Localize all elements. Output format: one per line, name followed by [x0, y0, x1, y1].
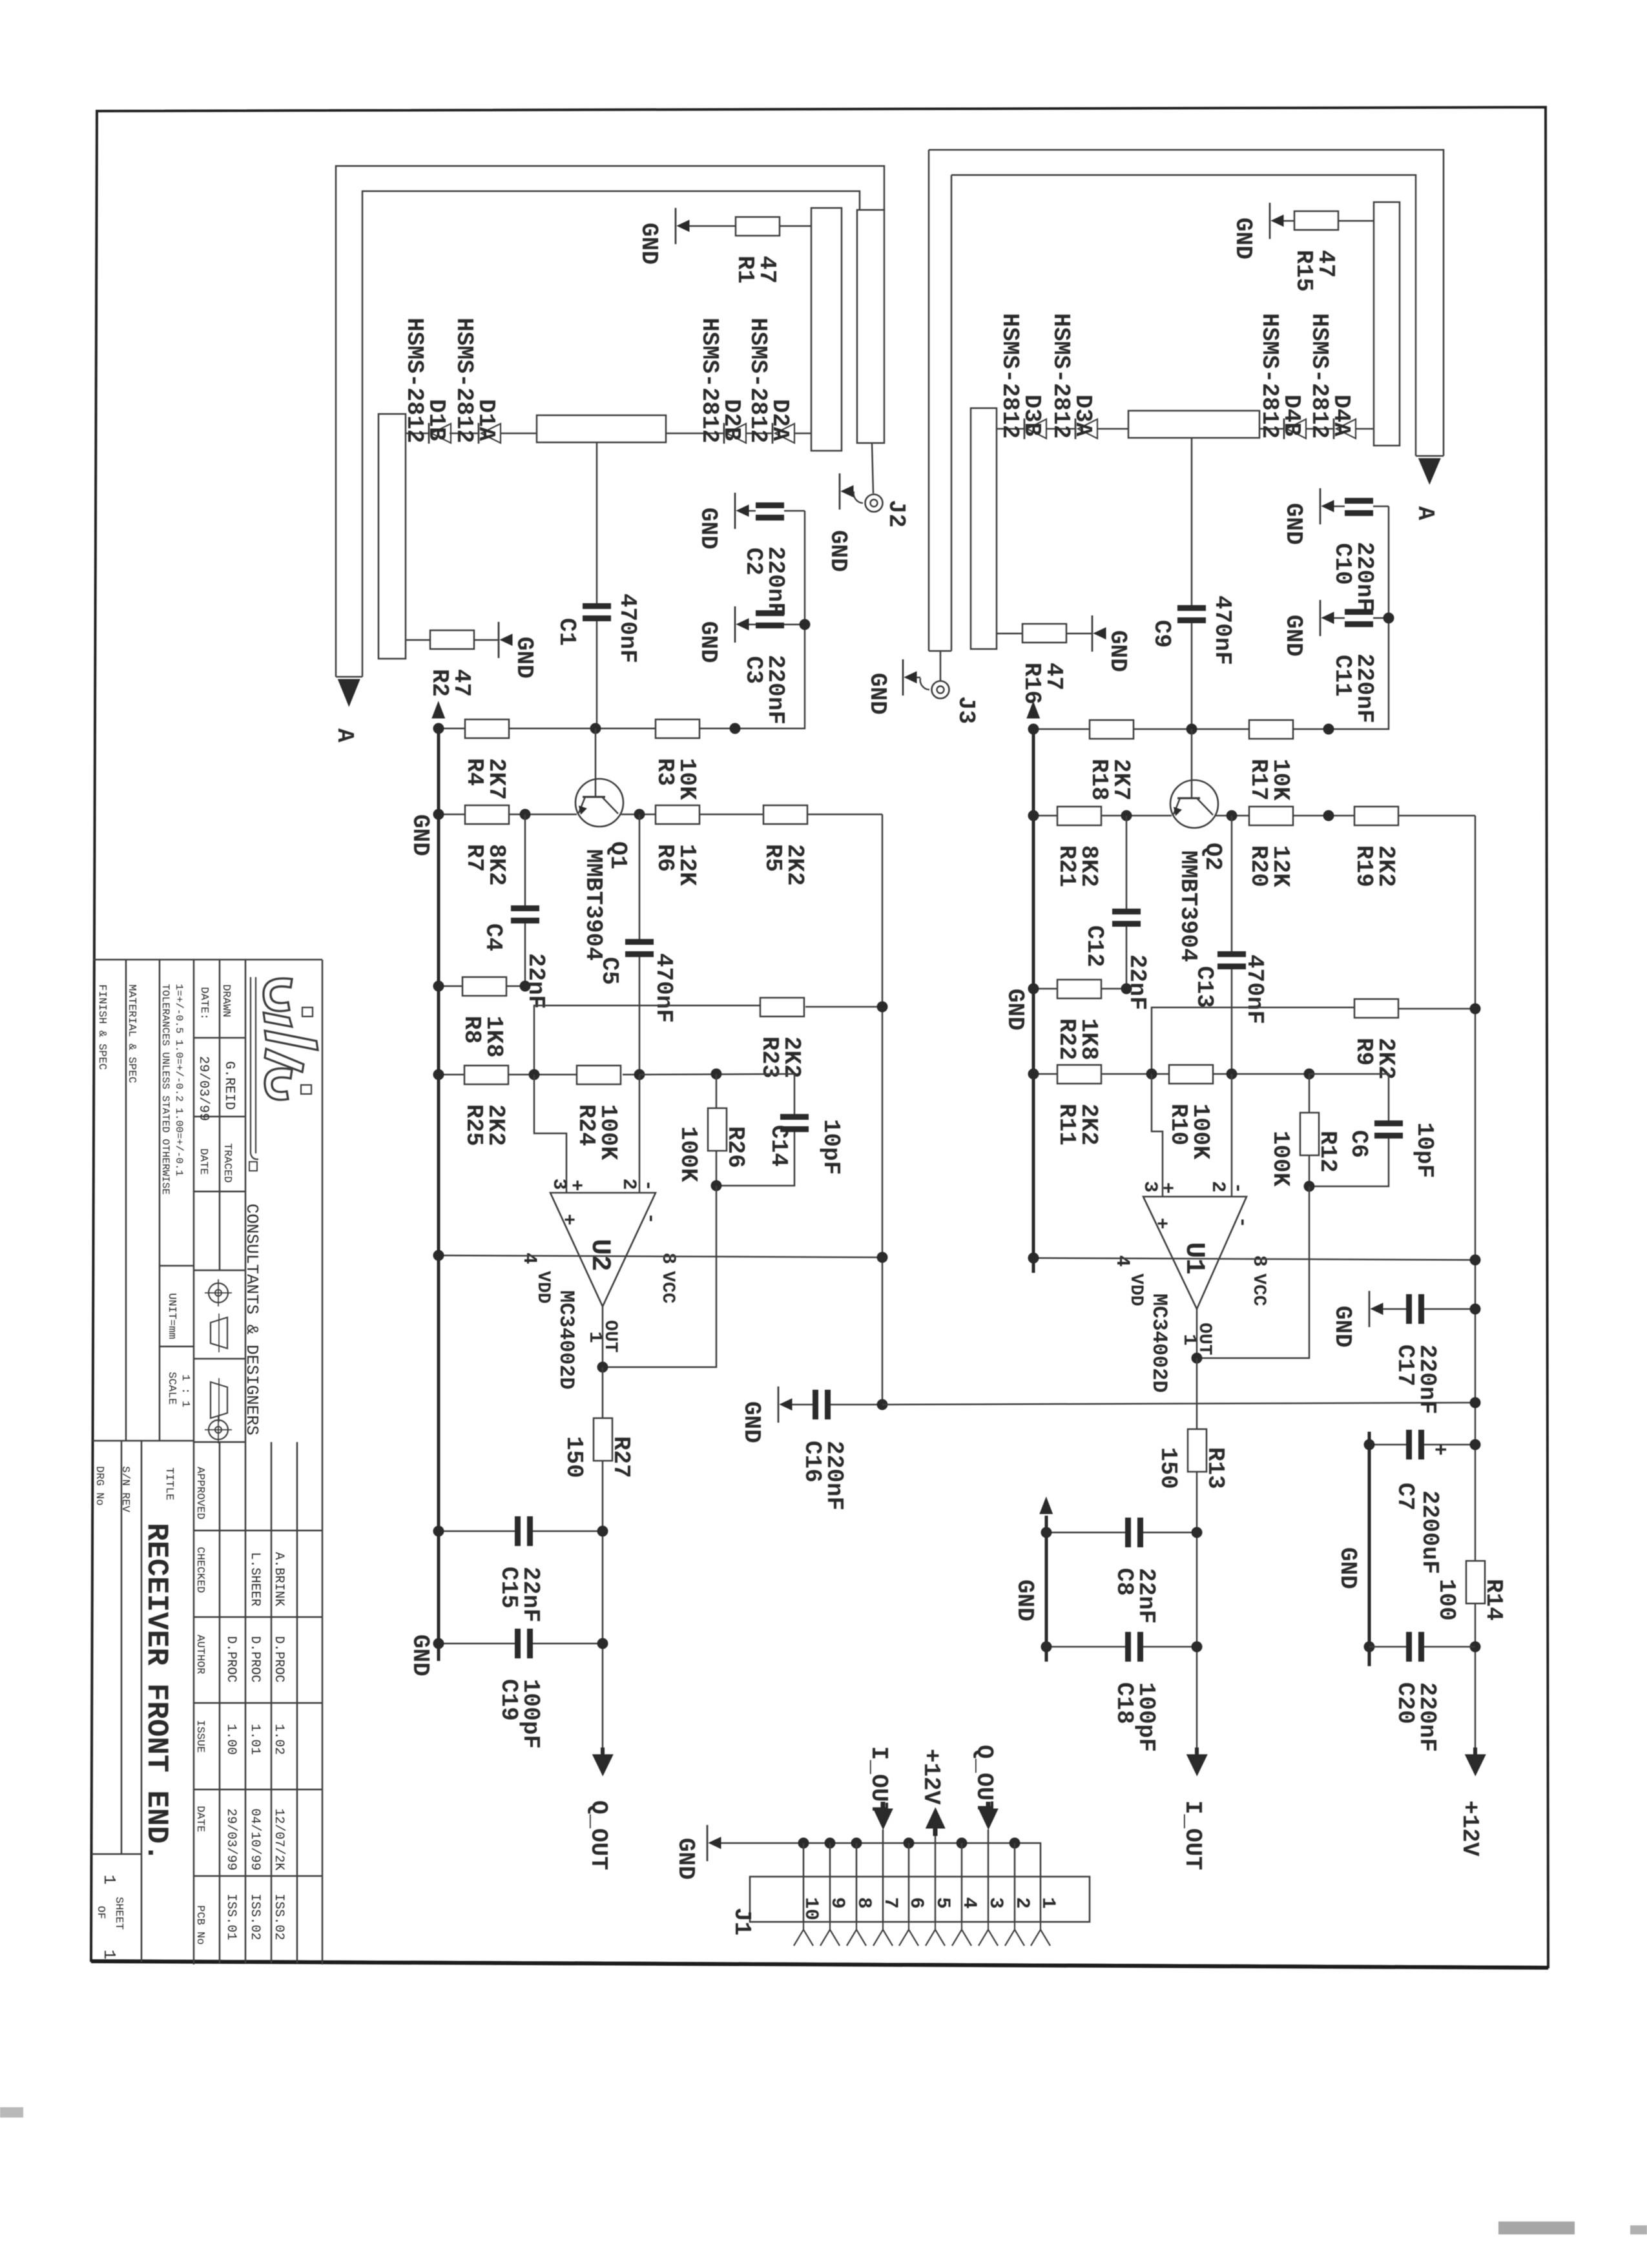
- resistor R23 2K2: [760, 998, 804, 1016]
- svg-text:1K8: 1K8: [1075, 1018, 1102, 1060]
- ground: [734, 493, 736, 529]
- svg-text:Q_OUT: Q_OUT: [971, 1745, 997, 1815]
- svg-text:ISS.02: ISS.02: [271, 1893, 286, 1940]
- svg-text:TRACED: TRACED: [221, 1143, 233, 1182]
- svg-text:R14: R14: [1480, 1579, 1507, 1621]
- resistor R12 100K: [1300, 1113, 1319, 1155]
- svg-text:29/03/99: 29/03/99: [223, 1808, 238, 1870]
- svg-text:DRAWN: DRAWN: [220, 984, 232, 1017]
- svg-text:220nF: 220nF: [762, 546, 789, 616]
- node Q_OUT: [592, 1755, 613, 1776]
- svg-text:2: 2: [617, 1179, 639, 1190]
- svg-text:GND: GND: [695, 621, 721, 663]
- svg-text:GND: GND: [738, 1401, 765, 1443]
- junction bus/R4: [433, 723, 444, 734]
- svg-text:47: 47: [1041, 663, 1067, 690]
- wire: divider row R11 R10: [1033, 1073, 1057, 1075]
- svg-text:8: 8: [657, 1253, 679, 1264]
- resistor R14 100: [1466, 1561, 1485, 1603]
- svg-text:47: 47: [1312, 250, 1339, 278]
- svg-text:ISS.01: ISS.01: [223, 1893, 238, 1940]
- junction J1 pin: [851, 1838, 862, 1849]
- wire: U2 -input: [639, 1075, 641, 1193]
- junction R11/R10: [1146, 1069, 1157, 1080]
- transistor Q1 MMBT3904: [575, 779, 623, 827]
- svg-text:D1A: D1A: [473, 399, 499, 441]
- svg-text:TOLERANCES UNLESS STATED OTHER: TOLERANCES UNLESS STATED OTHERWISE: [160, 984, 171, 1195]
- GND bus at C8/C18: [1045, 1516, 1048, 1662]
- GND bus (Q channel): [437, 725, 440, 1661]
- antenna element bar (I, to J3): [928, 150, 930, 651]
- svg-text:D4A: D4A: [1328, 395, 1354, 437]
- svg-text:SHEET: SHEET: [112, 1897, 125, 1930]
- svg-text:C1: C1: [554, 618, 580, 646]
- svg-text:100K: 100K: [595, 1104, 621, 1160]
- svg-text:+: +: [1155, 1182, 1177, 1194]
- wire: R9 feedback row: [1152, 1007, 1354, 1074]
- wire: base lead: [595, 728, 597, 780]
- wire: Q-channel outer loop, net A: [336, 166, 884, 677]
- svg-text:A: A: [1412, 506, 1438, 521]
- svg-text:GND: GND: [1280, 615, 1307, 657]
- svg-text:I_OUT: I_OUT: [1179, 1800, 1206, 1870]
- node +12V (bottom right): [1465, 1755, 1486, 1776]
- svg-text:8K2: 8K2: [1075, 845, 1102, 887]
- diode D1B HSMS-2812: [431, 424, 451, 443]
- GND bus at C7/C20: [1368, 1432, 1371, 1666]
- resistor R27 150: [602, 1367, 604, 1418]
- svg-text:22nF: 22nF: [1124, 954, 1150, 1010]
- connector J1: [750, 1877, 1090, 1922]
- svg-text:C4: C4: [480, 923, 506, 951]
- capacitor C8 22nF: [1125, 1518, 1131, 1547]
- svg-text:APPROVED: APPROVED: [194, 1467, 206, 1520]
- resistor R22 1K8: [1057, 980, 1101, 998]
- svg-text:A: A: [331, 728, 358, 743]
- capacitor C9 470nF: [1191, 438, 1193, 605]
- svg-text:12K: 12K: [1267, 845, 1294, 887]
- resistor R17 10K: [1249, 720, 1293, 739]
- junction C18/out: [1192, 1642, 1203, 1653]
- projection symbol 2: [211, 1382, 227, 1418]
- ground: [1092, 615, 1093, 652]
- junction bus/R8: [433, 981, 444, 992]
- svg-text:OF: OF: [94, 1906, 107, 1919]
- svg-text:1=+/-0.5 1.0=+/-0.2 1.00=+: 1=+/-0.5 1.0=+/-0.2 1.00=+/-0.1: [173, 984, 185, 1177]
- junction gnd/C8: [1041, 1527, 1052, 1538]
- svg-text:G.REID: G.REID: [222, 1061, 236, 1110]
- diode D2B HSMS-2812: [727, 424, 746, 443]
- svg-text:1.01: 1.01: [247, 1724, 262, 1755]
- capacitor C20 220nF: [1406, 1632, 1412, 1662]
- svg-text:D3B: D3B: [1019, 395, 1045, 437]
- svg-text:2K7: 2K7: [1108, 759, 1134, 801]
- svg-text:3: 3: [984, 1897, 1006, 1909]
- svg-text:1 : 1: 1 : 1: [179, 1374, 191, 1407]
- junction bus/R7: [433, 809, 444, 820]
- svg-text:12/07/2K: 12/07/2K: [271, 1808, 286, 1870]
- junction link/R20: [1323, 810, 1334, 821]
- wire: Q-channel inner loop, net A: [362, 191, 860, 677]
- svg-text:150: 150: [561, 1436, 587, 1478]
- svg-text:DATE: DATE: [197, 1148, 209, 1175]
- junction U2 out: [597, 1362, 608, 1373]
- connector J3: [932, 681, 949, 699]
- svg-text:C5: C5: [596, 957, 623, 985]
- junction R24/C5/pin2: [634, 1069, 645, 1080]
- junction bus/R25: [433, 1069, 444, 1080]
- svg-text:RECEIVER FRONT END.: RECEIVER FRONT END.: [140, 1523, 173, 1862]
- svg-text:29/03/99: 29/03/99: [196, 1056, 211, 1121]
- junction C12/R22: [1121, 984, 1132, 995]
- node I_OUT at J1 pin7: [873, 1809, 893, 1830]
- svg-text:-: -: [1227, 1182, 1248, 1194]
- svg-text:2K2: 2K2: [1075, 1104, 1102, 1146]
- svg-text:1: 1: [99, 1950, 119, 1960]
- svg-text:-: -: [637, 1180, 659, 1191]
- svg-text:GND: GND: [407, 814, 433, 856]
- wire: divider row R25 R24: [439, 1074, 464, 1076]
- diode D4B HSMS-2812: [1287, 419, 1306, 438]
- wire: base bias row R18 R17: [1033, 728, 1090, 730]
- wire: node to R26/C14: [639, 1074, 794, 1075]
- resistor R13 150: [1196, 1358, 1198, 1429]
- capacitor C18 100pF: [1125, 1632, 1131, 1662]
- svg-text:2K2: 2K2: [482, 1104, 509, 1146]
- wire: C10/C11 link down to R17 node: [1329, 506, 1389, 729]
- svg-text:C7: C7: [1392, 1483, 1418, 1510]
- svg-text:4: 4: [518, 1253, 540, 1264]
- svg-text:220nF: 220nF: [1414, 1682, 1440, 1752]
- svg-text:1K8: 1K8: [481, 1016, 507, 1058]
- resistor R7 8K2: [465, 805, 509, 824]
- ground: [675, 208, 677, 244]
- svg-text:D4B: D4B: [1278, 395, 1305, 437]
- junction bus/R11: [1028, 1069, 1039, 1080]
- junction gnd/C18: [1041, 1642, 1052, 1653]
- antenna element bar (I centre): [1128, 411, 1259, 438]
- ground: [1269, 203, 1271, 239]
- svg-text:C12: C12: [1081, 925, 1108, 967]
- svg-text:J2: J2: [883, 500, 909, 528]
- svg-text:C14: C14: [765, 1125, 792, 1167]
- svg-text:D2A: D2A: [767, 399, 793, 441]
- svg-text:GND: GND: [1280, 503, 1307, 545]
- svg-text:10: 10: [800, 1897, 822, 1921]
- svg-text:1.00: 1.00: [223, 1724, 238, 1755]
- resistor R4 2K7: [465, 719, 509, 738]
- GND bus (I channel): [1032, 725, 1035, 1273]
- junction C9/base: [1186, 724, 1197, 735]
- svg-text:2K2: 2K2: [782, 844, 808, 886]
- junction bus/R18: [1028, 724, 1039, 735]
- junction C8/out: [1192, 1527, 1203, 1538]
- svg-text:47: 47: [754, 256, 780, 283]
- junction bus/R22: [1028, 984, 1039, 995]
- junction C13 top: [1227, 810, 1238, 821]
- resistor R6 12K: [656, 805, 699, 824]
- capacitor C4 22nF: [524, 814, 526, 905]
- svg-text:10pF: 10pF: [1411, 1122, 1438, 1178]
- wire: bar B to J2: [872, 443, 873, 493]
- capacitor C2 220nF: [756, 502, 784, 508]
- title block grid: [94, 959, 322, 961]
- wire: base bias row R4 R3: [439, 728, 465, 730]
- junction gnd/C20: [1364, 1642, 1375, 1653]
- wire: R23 feedback row: [534, 1005, 760, 1075]
- diode D3A HSMS-2812: [1078, 419, 1097, 438]
- svg-text:10K: 10K: [1267, 759, 1294, 801]
- svg-text:GND: GND: [864, 673, 891, 715]
- J1 no-connect pins: [803, 1922, 804, 1930]
- svg-text:470nF: 470nF: [614, 593, 641, 663]
- svg-text:+12V: +12V: [1456, 1800, 1483, 1857]
- svg-text:100: 100: [1433, 1579, 1460, 1621]
- svg-text:1.02: 1.02: [271, 1724, 286, 1755]
- resistor R26 100K: [708, 1108, 727, 1151]
- diode D2A HSMS-2812: [775, 424, 794, 443]
- svg-text:A.BRINK: A.BRINK: [271, 1552, 286, 1606]
- resistor R11 2K2: [1057, 1065, 1101, 1084]
- junction C4 top: [520, 809, 531, 820]
- svg-text:GND: GND: [672, 1838, 699, 1880]
- ground: [1369, 1291, 1371, 1327]
- svg-text:D.PROC: D.PROC: [271, 1636, 286, 1682]
- diode D1A HSMS-2812: [481, 424, 501, 443]
- svg-text:+: +: [1150, 1218, 1172, 1230]
- wire: U2 +input jog: [534, 1075, 566, 1193]
- svg-text:MATERIAL & SPEC: MATERIAL & SPEC: [125, 984, 138, 1083]
- capacitor C3 220nF: [756, 610, 784, 616]
- svg-text:1: 1: [1037, 1897, 1059, 1909]
- svg-text:12K: 12K: [674, 844, 700, 886]
- svg-text:22nF: 22nF: [1133, 1568, 1159, 1624]
- resistor R2 47: [430, 630, 474, 649]
- junction J1 pin: [904, 1838, 915, 1849]
- junction J1 pin: [957, 1838, 968, 1849]
- junction bus/rail I: [1028, 1253, 1039, 1264]
- capacitor C10 220nF: [1345, 498, 1373, 504]
- antenna element bar A (Q right): [811, 208, 842, 451]
- junction rail/+12V: [1470, 1255, 1481, 1266]
- company logo: [250, 977, 251, 1153]
- svg-text:L.SHEER: L.SHEER: [247, 1552, 262, 1606]
- svg-text:R27: R27: [608, 1436, 634, 1478]
- svg-text:9: 9: [826, 1897, 848, 1909]
- junction R25/R24: [529, 1069, 540, 1080]
- wire: U1 output/feedback: [1196, 1309, 1198, 1358]
- svg-text:8: 8: [853, 1897, 875, 1909]
- svg-text:150: 150: [1155, 1447, 1181, 1489]
- wire: +V node vertical (Q): [882, 814, 884, 1405]
- svg-text:U2: U2: [585, 1239, 616, 1271]
- svg-text:C6: C6: [1345, 1130, 1372, 1158]
- resistor R18 2K7: [1090, 720, 1134, 739]
- antenna element bar (Q left): [378, 414, 406, 659]
- node +12V at J1 pin5: [926, 1808, 945, 1828]
- svg-text:D1B: D1B: [423, 399, 450, 441]
- junction +V link/rail: [1470, 1397, 1481, 1408]
- wire: +V link to right rail: [882, 1403, 1475, 1405]
- svg-text:-: -: [639, 1213, 661, 1224]
- junction C15/out: [597, 1526, 608, 1537]
- capacitor C16 220nF: [813, 1390, 818, 1419]
- junction R10/C13/pin2: [1227, 1069, 1238, 1080]
- svg-text:R12: R12: [1314, 1131, 1341, 1173]
- svg-text:+: +: [565, 1180, 586, 1191]
- wire: row R21 R20 R19: [1033, 815, 1057, 817]
- svg-text:1: 1: [99, 1875, 119, 1885]
- svg-text:2: 2: [1207, 1181, 1228, 1193]
- svg-text:8: 8: [1248, 1255, 1270, 1267]
- node I_OUT (amp output): [1186, 1755, 1207, 1776]
- junction J1 pin: [798, 1838, 809, 1849]
- svg-text:C13: C13: [1191, 966, 1217, 1008]
- svg-text:Q1: Q1: [605, 841, 631, 869]
- svg-text:I_OUT: I_OUT: [865, 1746, 892, 1816]
- svg-text:Q2: Q2: [1199, 843, 1226, 871]
- junction R12/C6 bottom: [1304, 1181, 1315, 1192]
- svg-text:100K: 100K: [1267, 1131, 1294, 1187]
- junction R26 top: [711, 1069, 722, 1080]
- svg-text:Q_OUT: Q_OUT: [585, 1800, 612, 1870]
- svg-text:47: 47: [448, 669, 475, 697]
- svg-text:2: 2: [1011, 1897, 1033, 1909]
- svg-text:2K2: 2K2: [1372, 845, 1399, 887]
- resistor R16 47: [1022, 624, 1066, 643]
- capacitor C19 100pF: [515, 1629, 521, 1658]
- svg-text:100pF: 100pF: [517, 1679, 544, 1749]
- wire: emitter/collector row R7 R6 R5: [439, 814, 465, 816]
- projection symbol 1: [209, 1283, 228, 1303]
- junction bus/C19: [433, 1638, 444, 1649]
- svg-text:4: 4: [958, 1897, 980, 1909]
- junction bus/R21: [1028, 810, 1039, 821]
- capacitor C7 2200uF: [1406, 1430, 1412, 1459]
- resistor R24 100K: [577, 1066, 621, 1084]
- wire: bar to J3: [940, 651, 942, 681]
- wire: VDD/VCC rail (I): [1033, 1258, 1475, 1260]
- junction R26/C14 bottom: [711, 1180, 722, 1191]
- svg-text:GND: GND: [636, 223, 662, 265]
- junction C19/out: [597, 1638, 608, 1649]
- svg-text:GND: GND: [511, 637, 537, 679]
- svg-text:VDD: VDD: [533, 1271, 553, 1303]
- antenna element bar (I left): [971, 408, 997, 649]
- svg-text:4: 4: [1111, 1255, 1133, 1267]
- junction R17/link: [1323, 724, 1334, 735]
- svg-text:AUTHOR: AUTHOR: [194, 1634, 206, 1674]
- junction C11/link: [1383, 613, 1394, 624]
- svg-text:220nF: 220nF: [1414, 1345, 1440, 1414]
- svg-text:GND: GND: [407, 1634, 433, 1676]
- capacitor C12 22nF: [1126, 816, 1128, 909]
- node A (I side arrow): [1418, 459, 1440, 484]
- junction bus/C15: [433, 1526, 444, 1537]
- svg-text:GND: GND: [1002, 989, 1028, 1031]
- node Q_OUT at J1 pin3: [979, 1809, 998, 1830]
- ground: [778, 1387, 780, 1423]
- antenna element bar C (I right): [1374, 202, 1400, 446]
- svg-text:VCC: VCC: [1248, 1273, 1269, 1306]
- ground at J2: [839, 473, 841, 510]
- svg-text:ISS.02: ISS.02: [247, 1893, 262, 1940]
- svg-text:R26: R26: [722, 1126, 749, 1168]
- svg-text:5: 5: [931, 1897, 953, 1909]
- svg-text:SCALE: SCALE: [165, 1372, 178, 1405]
- svg-text:GND: GND: [1334, 1547, 1361, 1589]
- capacitor C13 470nF: [1231, 816, 1233, 951]
- svg-text:J1: J1: [729, 1908, 755, 1935]
- svg-text:C9: C9: [1148, 620, 1175, 648]
- svg-text:VCC: VCC: [658, 1271, 678, 1304]
- capacitor C14 10pF: [794, 1074, 796, 1114]
- svg-text:D.PROC: D.PROC: [223, 1636, 238, 1682]
- junction C12 top: [1121, 810, 1132, 821]
- junction R9/+12V rail: [1470, 1004, 1481, 1015]
- op-amp U1 MC34002D: [1143, 1197, 1247, 1309]
- drawing border frame: [91, 107, 1548, 1967]
- capacitor C1 470nF: [596, 442, 598, 603]
- svg-text:6: 6: [905, 1897, 927, 1909]
- svg-text:10K: 10K: [674, 758, 700, 800]
- svg-text:PCB No: PCB No: [194, 1905, 206, 1944]
- svg-text:S/N REV: S/N REV: [119, 1466, 131, 1512]
- svg-text:CONSULTANTS & DESIGNERS: CONSULTANTS & DESIGNERS: [242, 1204, 262, 1436]
- ground: [1320, 488, 1321, 524]
- resistor R5 2K2: [763, 805, 807, 824]
- junction C16/+V node: [877, 1399, 888, 1410]
- junction U1 out: [1192, 1353, 1203, 1364]
- capacitor C5 470nF: [639, 814, 641, 939]
- junction C17/rail: [1470, 1304, 1481, 1315]
- ground: [1320, 600, 1321, 636]
- junction C3/link: [800, 619, 811, 630]
- svg-text:10pF: 10pF: [818, 1119, 844, 1175]
- svg-text:100K: 100K: [675, 1126, 701, 1182]
- svg-text:220nF: 220nF: [762, 655, 789, 725]
- wire: U1 +input jog: [1152, 1074, 1163, 1197]
- resistor R10 100K: [1169, 1065, 1213, 1084]
- svg-text:GND: GND: [1230, 218, 1256, 260]
- ground: [734, 606, 736, 643]
- op-amp U2 MC34002D: [550, 1193, 656, 1306]
- connector J2: [865, 495, 883, 512]
- transistor Q2 MMBT3904: [1191, 729, 1193, 781]
- wire: C2/C3 link down to R3 node: [735, 511, 805, 728]
- svg-text:R13: R13: [1202, 1447, 1228, 1489]
- wire: VDD/VCC rail (Q): [439, 1255, 882, 1257]
- junction R14/C20: [1470, 1642, 1481, 1653]
- svg-text:GND: GND: [1104, 630, 1131, 672]
- capacitor C6 10pF: [1309, 1074, 1389, 1120]
- svg-text:D3A: D3A: [1070, 395, 1096, 437]
- svg-text:DATE:: DATE:: [198, 987, 210, 1020]
- junction J1 pin: [825, 1838, 836, 1849]
- resistor R25 2K2: [464, 1066, 508, 1084]
- capacitor C17 220nF: [1406, 1294, 1412, 1324]
- svg-text:FINISH & SPEC: FINISH & SPEC: [96, 984, 108, 1070]
- svg-text:J3: J3: [953, 696, 979, 724]
- svg-text:ISSUE: ISSUE: [194, 1720, 206, 1753]
- svg-text:22nF: 22nF: [517, 1567, 544, 1622]
- junction R23/+V: [877, 1002, 888, 1013]
- svg-text:2200uF: 2200uF: [1416, 1490, 1443, 1574]
- junction C4/R8: [520, 981, 531, 992]
- svg-text:VDD: VDD: [1126, 1273, 1146, 1306]
- junction J1 pin: [1010, 1838, 1020, 1849]
- junction bus/rail: [433, 1250, 444, 1261]
